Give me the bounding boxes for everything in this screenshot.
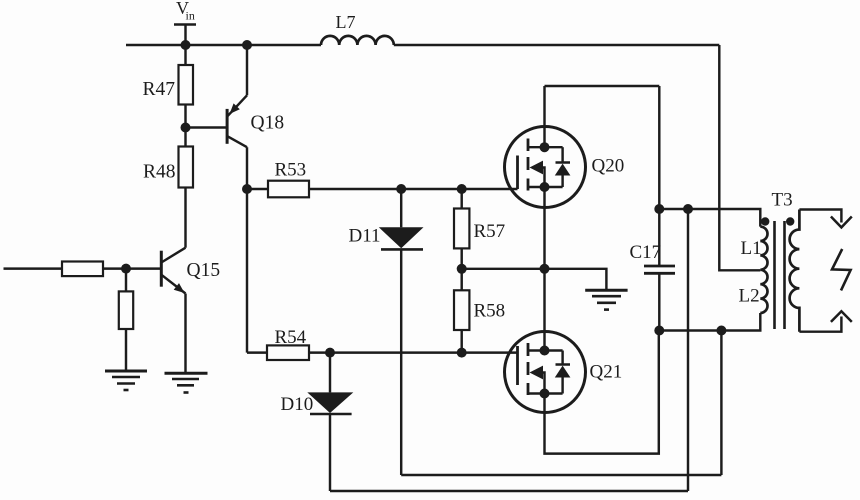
svg-text:Q20: Q20 [592,156,625,177]
transistor Q18 collector diagonal [227,136,247,147]
transformer T3 primary winding L1+L2 [760,227,767,313]
wire: D10 anode lead [329,353,331,393]
node: C17 bottom junction [654,326,664,336]
svg-text:L2: L2 [739,286,760,307]
node: R58 bottom junction [457,348,467,358]
wire: rail corner down to transformer center tap [719,45,760,270]
resistor R54 [267,345,309,360]
MOSFET Q20 body diode cathode bar [556,161,571,164]
wire: R53 left lead [247,188,268,190]
node: Q15 base junction [121,264,131,274]
wire: vertical from R53 node down to R54 [246,189,248,353]
diode D11 cathode bar [381,248,423,251]
resistor input series (unlabeled) [62,262,103,277]
wire: R48 bottom to Q15 collector [184,188,186,248]
arrow: secondary top output (down) [831,217,852,228]
capacitor C17 bottom plate [644,272,675,275]
inductor L7 [321,36,394,45]
transformer T3 core line left [773,221,776,329]
MOSFET Q20 drain branch [528,146,563,148]
wire: C17 bottom lead [658,273,660,330]
MOSFET Q20 body diode leads [561,147,563,162]
svg-text:Q18: Q18 [251,113,285,134]
node: D11 return junction [716,326,726,336]
wire: riser from drain horizontal to C17 [658,86,660,209]
wire: Q18 emitter vertical to rail [246,45,248,95]
MOSFET Q20 body link to source [543,168,545,188]
node: D10 return junction [683,204,693,214]
ground (Q15 emitter) [165,373,208,392]
MOSFET Q21 body diode leads [561,351,563,365]
node: Q20 drain tap [540,142,550,152]
wire: D10 cathode vertical down [329,414,331,491]
MOSFET Q21 channel dashes [527,343,530,395]
power terminal Vin T-bar [174,23,196,26]
wire: top rail right segment [394,44,720,46]
MOSFET Q21 body arrow [530,366,544,380]
wire: bottom node line to primary bottom [659,313,760,331]
transistor Q18 emitter arrow (PNP, points to base) [230,103,240,114]
MOSFET Q21 body link to source [543,373,545,394]
MOSFET Q21 body diode triangle [555,366,571,378]
wire: Q20 drain top horizontal [545,85,660,87]
svg-text:R57: R57 [474,221,506,242]
resistor R58 [454,290,469,330]
transistor Q15 base bar [160,251,163,287]
svg-text:R47: R47 [143,79,176,100]
wire: R58 top lead [460,269,462,291]
wire: R47 bottom lead to base node [184,105,186,128]
svg-text:Q21: Q21 [590,362,623,383]
wire: Q21 source down and around to output node [545,331,659,454]
diode D10 cathode bar [310,413,352,416]
capacitor C17 top plate [644,265,675,268]
resistor R48 [179,147,194,188]
wire: Q15 emitter vertical to ground [184,294,186,374]
ground (under bias resistor) [105,371,147,390]
MOSFET Q21 body circle [505,332,586,413]
wire: C17 top lead [658,209,660,266]
wire: R57 bottom lead [460,248,462,268]
resistor R47 [179,65,194,105]
wire: top rail left segment [126,44,321,46]
node: Q20 source tap [540,182,550,192]
MOSFET Q20 channel dashes [527,139,530,191]
MOSFET Q20 gate bar [516,156,519,190]
wire: Q20 drain vertical [543,86,545,147]
transformer T3 secondary winding [790,210,800,332]
node: C17 top junction [654,204,664,214]
node: Q21 drain tap [540,346,550,356]
wire: R47 top lead [184,45,186,65]
wire: gate line R53 to Q20 gate [309,188,518,190]
MOSFET Q21 gate bar [516,346,519,385]
wire: Q18 base wire [186,126,228,128]
transistor Q18 emitter diagonal [227,95,247,116]
resistor bias to ground (unlabeled) [119,291,133,329]
node: R54 / D10 junction [325,348,335,358]
transistor Q15 emitter arrow [174,283,185,293]
svg-text:T3: T3 [772,190,793,211]
svg-text:L1: L1 [741,238,762,259]
wire: R57 top lead [460,189,462,209]
wire: bias resistor top lead [125,269,127,292]
wire: D10 return bottom horizontal [330,490,688,492]
wire: R58 bottom lead [460,330,462,353]
MOSFET Q20 body circle [505,127,586,208]
MOSFET Q20 body arrow [530,161,544,175]
wire: D10 return riser [687,209,689,491]
wire: secondary top lead to output [799,210,841,223]
MOSFET Q20 source branch [528,186,563,188]
MOSFET Q21 drain branch [528,349,563,351]
node: R47/R48/Q18 base junction [181,123,191,133]
node: R57/R58 midpoint junction [457,264,467,274]
svg-text:R54: R54 [275,327,307,348]
wire: input line left [4,267,63,269]
diode D11 triangle [379,227,424,248]
node: Vin junction on rail [181,40,191,50]
svg-text:L7: L7 [336,12,356,32]
svg-text:in: in [186,9,195,23]
transistor Q18 base bar [226,109,229,144]
transformer T3 core line right [783,221,786,329]
wire: Q20 source to Q21 drain vertical [543,187,545,351]
svg-text:R48: R48 [143,162,176,183]
node: Q18 emitter junction on rail [242,40,252,50]
arrow: secondary bottom output (up) [831,311,852,322]
resistor R53 [268,181,309,198]
wire: secondary bottom lead to output [799,317,841,332]
wire: R48 top lead [184,128,186,147]
MOSFET Q21 source branch [528,392,563,394]
transistor Q15 collector diagonal [161,248,185,263]
wire: bias resistor bottom lead to ground [125,329,127,371]
wire: Q18 collector vertical to R53 node [246,147,248,189]
node: R57 top junction [457,184,467,194]
wire: D11 anode lead [400,189,402,227]
wire: gate line R54 to Q21 gate [309,351,518,353]
node: Q18 collector / R53 junction [242,184,252,194]
MOSFET Q21 body diode cathode bar [556,363,571,366]
svg-text:Q15: Q15 [187,260,221,281]
wire: D11 return riser [720,331,722,476]
diode D10 triangle [307,392,353,413]
wire: Vin stem to top rail [184,25,186,46]
svg-text:R58: R58 [474,301,506,322]
lightning bolt symbol [832,249,851,290]
wire: node line to transformer primary top [659,209,760,227]
wire: D11 return bottom horizontal [401,474,721,476]
wire: R54 left lead [247,351,267,353]
svg-text:R53: R53 [275,160,307,181]
polarity dot: primary [761,217,769,225]
svg-text:D11: D11 [349,226,381,247]
svg-text:D10: D10 [281,394,314,415]
wire: Q15 base wire [126,267,161,269]
wire: input resistor to Q15 base node [103,267,126,269]
node: half-bridge midpoint junction [540,264,550,274]
node: D11 anode junction [396,184,406,194]
transistor Q15 emitter diagonal [161,275,185,294]
ground (half-bridge midpoint) [585,290,627,309]
node: Q21 source tap [540,389,550,399]
resistor R57 [454,209,469,249]
wire: middle node line to ground [462,269,607,291]
wire: D11 cathode vertical down [400,249,402,475]
polarity dot: secondary [786,217,794,225]
svg-text:C17: C17 [630,242,662,263]
MOSFET Q20 body diode triangle [555,164,571,176]
